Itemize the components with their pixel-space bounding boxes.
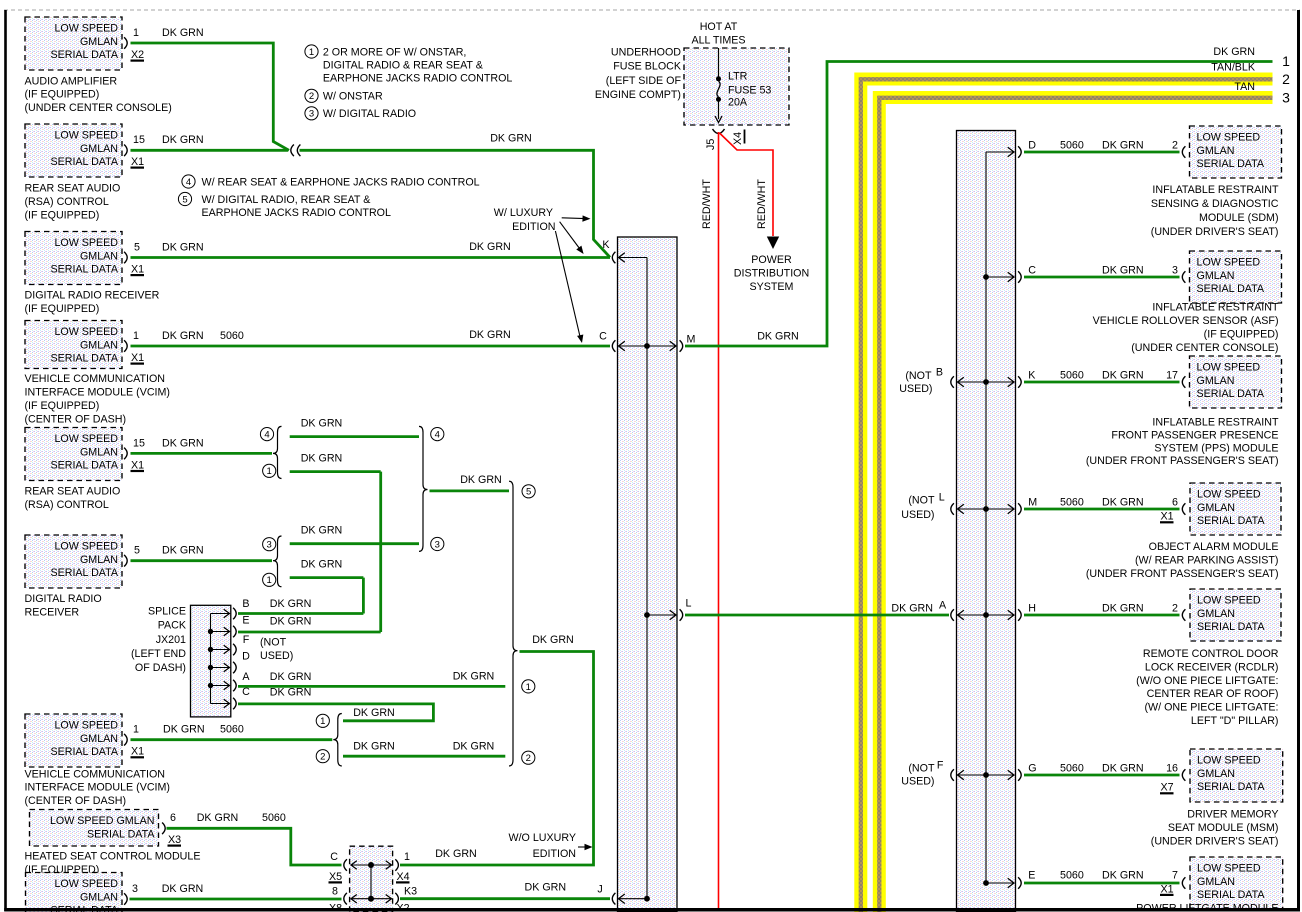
svg-text:(W/ ONE PIECE LIFTGATE:: (W/ ONE PIECE LIFTGATE:: [1145, 702, 1279, 714]
svg-text:SERIAL DATA: SERIAL DATA: [1197, 158, 1265, 170]
svg-text:W/O LUXURY: W/O LUXURY: [508, 832, 576, 844]
svg-text:5060: 5060: [1060, 139, 1084, 151]
svg-text:5060: 5060: [1060, 869, 1084, 881]
svg-text:SPLICE: SPLICE: [148, 605, 186, 617]
wire DK GRN branch note4: [290, 435, 419, 438]
svg-text:5: 5: [526, 487, 531, 498]
splice bus bar (right) body: [957, 131, 1016, 912]
wire DK GRN terminal K to PPS module: [1024, 381, 1180, 384]
svg-text:DK GRN: DK GRN: [1102, 369, 1144, 381]
svg-text:W/ DIGITAL RADIO: W/ DIGITAL RADIO: [323, 108, 416, 120]
svg-text:LOW SPEED: LOW SPEED: [1197, 489, 1261, 501]
svg-text:EARPHONE JACKS RADIO CONTROL: EARPHONE JACKS RADIO CONTROL: [202, 207, 391, 219]
svg-text:1: 1: [526, 682, 531, 693]
svg-text:B: B: [242, 598, 249, 610]
connector row 2: 8/X8 to K3/X2: [344, 893, 347, 905]
svg-text:SERIAL DATA: SERIAL DATA: [87, 828, 155, 840]
svg-text:DK GRN: DK GRN: [162, 437, 204, 449]
svg-text:SERIAL DATA: SERIAL DATA: [1197, 283, 1265, 295]
svg-text:X3: X3: [168, 834, 181, 846]
svg-text:GMLAN: GMLAN: [80, 143, 118, 155]
svg-text:4: 4: [264, 430, 269, 441]
svg-text:(NOT: (NOT: [908, 495, 935, 507]
svg-text:DK GRN: DK GRN: [301, 417, 343, 429]
svg-text:X4: X4: [397, 871, 410, 883]
svg-text:1: 1: [267, 466, 272, 477]
module box: RCDLR LOW SPEED GMLAN SERIAL DATA: [1190, 589, 1281, 641]
svg-text:FUSE 53: FUSE 53: [728, 85, 771, 97]
svg-text:SERIAL DATA: SERIAL DATA: [1197, 621, 1265, 633]
terminal A / H row of bus bar 2: [951, 609, 954, 621]
svg-text:INTERFACE MODULE (VCIM): INTERFACE MODULE (VCIM): [25, 782, 170, 794]
svg-text:H: H: [1028, 602, 1036, 614]
svg-text:GMLAN: GMLAN: [80, 250, 118, 262]
svg-text:LOW SPEED: LOW SPEED: [54, 237, 118, 249]
svg-text:(RSA) CONTROL: (RSA) CONTROL: [25, 499, 109, 511]
terminal L of bus bar 1: [680, 609, 683, 621]
inline connector box (X5/X4 - X8/X2): [350, 846, 393, 912]
svg-text:INTERFACE MODULE (VCIM): INTERFACE MODULE (VCIM): [25, 387, 170, 399]
svg-text:1: 1: [267, 575, 272, 586]
wire 3 TAN thick from right edge down to bottom: [879, 98, 1272, 912]
svg-text:LOW SPEED: LOW SPEED: [54, 541, 118, 553]
svg-text:J5: J5: [705, 139, 717, 150]
svg-text:X7: X7: [1161, 782, 1174, 794]
svg-text:EDITION: EDITION: [533, 848, 576, 860]
wire DK GRN from L terminal to A terminal of right bus: [685, 614, 949, 617]
svg-text:USED): USED): [901, 776, 934, 788]
svg-text:DK GRN: DK GRN: [453, 740, 495, 752]
svg-text:OF DASH): OF DASH): [135, 662, 186, 674]
svg-text:RED/WHT: RED/WHT: [701, 179, 713, 229]
svg-text:DK GRN: DK GRN: [469, 241, 511, 253]
terminal L (not used) / M row of bus bar 2: [951, 503, 954, 515]
wire DK GRN branch note3: [290, 542, 419, 545]
svg-text:1: 1: [133, 724, 139, 736]
svg-text:X5: X5: [329, 871, 342, 883]
svg-text:W/ LUXURY: W/ LUXURY: [494, 207, 553, 219]
svg-text:5: 5: [134, 545, 140, 557]
svg-text:3: 3: [309, 109, 314, 120]
wire RED/WHT vertical (J5): [718, 132, 720, 908]
svg-text:DK GRN: DK GRN: [1102, 264, 1144, 276]
connector row 1: C/X5 to 1/X4: [344, 859, 347, 871]
svg-text:5: 5: [182, 194, 187, 205]
splice pack wire E DK GRN: [238, 631, 381, 634]
svg-text:LOW SPEED: LOW SPEED: [54, 130, 118, 142]
svg-text:LTR: LTR: [728, 70, 748, 82]
module box: rollover sensor ASF LOW SPEED GMLAN SERIAL DATA: [1190, 251, 1282, 303]
svg-text:(IF EQUIPPED): (IF EQUIPPED): [25, 303, 100, 315]
svg-text:GMLAN: GMLAN: [1197, 145, 1235, 157]
svg-text:DK GRN: DK GRN: [270, 598, 312, 610]
svg-text:DK GRN: DK GRN: [460, 474, 502, 486]
svg-text:SENSING & DIAGNOSTIC: SENSING & DIAGNOSTIC: [1151, 198, 1279, 210]
right splice bus inner conductor: [985, 152, 987, 883]
svg-text:EARPHONE JACKS RADIO CONTROL: EARPHONE JACKS RADIO CONTROL: [323, 73, 512, 85]
module box: MSM LOW SPEED GMLAN SERIAL DATA: [1190, 749, 1283, 802]
terminal C row of bus bar 2: [986, 276, 1014, 278]
svg-text:(RSA) CONTROL: (RSA) CONTROL: [25, 196, 109, 208]
svg-text:SERIAL DATA: SERIAL DATA: [50, 156, 118, 168]
wire DK GRN terminal H to RCDLR: [1024, 614, 1180, 617]
svg-text:2: 2: [1282, 71, 1290, 87]
svg-text:DISTRIBUTION: DISTRIBUTION: [734, 267, 809, 279]
svg-text:LOW SPEED: LOW SPEED: [54, 326, 118, 338]
svg-text:DK GRN: DK GRN: [162, 27, 204, 39]
note 2: W/ ONSTAR: [305, 89, 318, 102]
module box: PPS LOW SPEED GMLAN SERIAL DATA: [1190, 356, 1282, 408]
svg-text:SERIAL DATA: SERIAL DATA: [50, 264, 118, 276]
svg-text:LOW SPEED GMLAN: LOW SPEED GMLAN: [50, 815, 155, 827]
svg-text:1: 1: [309, 47, 314, 58]
svg-text:(IF EQUIPPED): (IF EQUIPPED): [25, 400, 100, 412]
svg-text:DK GRN: DK GRN: [270, 671, 312, 683]
svg-text:(UNDER FRONT PASSENGER'S SEAT): (UNDER FRONT PASSENGER'S SEAT): [1086, 568, 1279, 580]
wire DK GRN note 5: [430, 489, 510, 492]
terminal B (not used) / K row of bus bar 2: [951, 376, 954, 388]
wire DK GRN from splice to K terminal of splice bus: [300, 150, 611, 257]
svg-text:6: 6: [1172, 496, 1178, 508]
wire DK GRN branch note1 upper: [290, 472, 381, 632]
svg-text:J: J: [597, 883, 602, 895]
svg-text:DK GRN: DK GRN: [1102, 762, 1144, 774]
svg-text:USED): USED): [899, 383, 932, 395]
page frame: [4, 9, 1300, 11]
svg-text:DRIVER MEMORY: DRIVER MEMORY: [1187, 809, 1278, 821]
svg-text:E: E: [1028, 869, 1035, 881]
svg-text:SERIAL DATA: SERIAL DATA: [50, 567, 118, 579]
svg-text:1: 1: [133, 27, 139, 39]
svg-text:HEATED SEAT CONTROL MODULE: HEATED SEAT CONTROL MODULE: [25, 851, 201, 863]
svg-text:SERIAL DATA: SERIAL DATA: [1197, 781, 1265, 793]
svg-text:X1: X1: [131, 264, 144, 276]
svg-text:G: G: [1028, 762, 1036, 774]
note 5: W/ DIGITAL RADIO, REAR SEAT & EARPHONE JACKS RADIO CONTROL: [178, 192, 191, 205]
svg-text:(LEFT SIDE OF: (LEFT SIDE OF: [606, 75, 682, 87]
svg-text:2: 2: [320, 752, 325, 763]
svg-text:SERIAL DATA: SERIAL DATA: [50, 460, 118, 472]
splice pack pin arcs and letters B E F D A C: [233, 608, 236, 620]
module box: DIGITAL RADIO RECEIVER (IF EQUIPPED) connector X1 pin 5: [25, 232, 122, 285]
module box: object alarm LOW SPEED GMLAN SERIAL DATA: [1190, 483, 1281, 535]
wire 2 TAN/BLK thick from right edge down to bottom: [861, 79, 1273, 912]
wire RED/WHT to power distribution (X4): [720, 133, 774, 236]
module box: power liftgate LOW SPEED GMLAN SERIAL DATA: [1190, 857, 1283, 909]
module box: VEHICLE COMMUNICATION INTERFACE MODULE (VCIM) (IF EQUIPPED) connector X1 pin 1: [25, 321, 122, 369]
svg-text:20A: 20A: [728, 96, 748, 108]
svg-text:1: 1: [133, 330, 139, 342]
svg-text:AUDIO AMPLIFIER: AUDIO AMPLIFIER: [25, 75, 118, 87]
svg-text:GMLAN: GMLAN: [80, 339, 118, 351]
svg-text:MODULE (SDM): MODULE (SDM): [1199, 212, 1279, 224]
svg-text:X2: X2: [131, 49, 144, 61]
svg-text:GMLAN: GMLAN: [80, 446, 118, 458]
svg-text:DK GRN: DK GRN: [301, 558, 343, 570]
splice pack internal bus with pin arrows: [210, 614, 212, 704]
svg-text:X1: X1: [1161, 511, 1174, 523]
svg-text:DK GRN: DK GRN: [162, 134, 204, 146]
svg-text:(CENTER OF DASH): (CENTER OF DASH): [25, 795, 127, 807]
terminal K of bus bar 1: [612, 252, 615, 264]
svg-text:2: 2: [309, 91, 314, 102]
svg-text:A: A: [242, 671, 250, 683]
svg-text:LOW SPEED: LOW SPEED: [1197, 132, 1261, 144]
svg-text:C: C: [330, 851, 338, 863]
connector J5/X4 under fuse block: [713, 129, 725, 134]
svg-text:(NOT: (NOT: [905, 370, 932, 382]
svg-text:(UNDER CENTER CONSOLE): (UNDER CENTER CONSOLE): [25, 102, 172, 114]
svg-text:LOW SPEED: LOW SPEED: [1197, 362, 1261, 374]
svg-text:K: K: [602, 239, 610, 251]
svg-text:HOT AT: HOT AT: [700, 21, 738, 33]
wire DK GRN from heated seat module to inline connector C/X5: [167, 828, 342, 865]
svg-text:3: 3: [132, 883, 138, 895]
svg-text:5060: 5060: [1060, 762, 1084, 774]
svg-text:D: D: [242, 651, 250, 663]
svg-text:W/ ONSTAR: W/ ONSTAR: [323, 91, 383, 103]
svg-text:(W/O ONE PIECE LIFTGATE:: (W/O ONE PIECE LIFTGATE:: [1136, 675, 1278, 687]
svg-text:DK GRN: DK GRN: [435, 848, 477, 860]
terminal D row of bus bar 2: [986, 151, 1014, 153]
svg-text:(CENTER OF DASH): (CENTER OF DASH): [25, 413, 127, 425]
module box: VEHICLE COMMUNICATION INTERFACE MODULE (VCIM) connector X1 pin 1: [25, 714, 122, 767]
svg-text:LOW SPEED: LOW SPEED: [54, 878, 118, 890]
module box: SDM LOW SPEED GMLAN SERIAL DATA: [1190, 126, 1282, 178]
svg-text:INFLATABLE RESTRAINT: INFLATABLE RESTRAINT: [1152, 184, 1279, 196]
svg-text:15: 15: [133, 437, 145, 449]
svg-text:USED): USED): [901, 509, 934, 521]
svg-text:5: 5: [134, 242, 140, 254]
svg-text:M: M: [687, 334, 696, 346]
svg-text:SERIAL DATA: SERIAL DATA: [50, 353, 118, 365]
svg-text:E: E: [242, 614, 249, 626]
svg-text:CENTER REAR OF ROOF): CENTER REAR OF ROOF): [1147, 688, 1279, 700]
svg-text:5060: 5060: [220, 724, 244, 736]
connector internal link: [370, 865, 372, 899]
svg-text:LOW SPEED: LOW SPEED: [54, 433, 118, 445]
svg-text:RED/WHT: RED/WHT: [756, 179, 768, 229]
svg-text:VEHICLE COMMUNICATION: VEHICLE COMMUNICATION: [25, 373, 166, 385]
splice pack JX201 body: [191, 605, 231, 717]
svg-text:SERIAL DATA: SERIAL DATA: [50, 49, 118, 61]
svg-text:DK GRN: DK GRN: [891, 602, 933, 614]
wire DK GRN terminal M to object alarm module: [1024, 508, 1180, 511]
svg-text:3: 3: [1172, 264, 1178, 276]
module box: DIGITAL RADIO RECEIVER connector pin 5: [25, 535, 122, 588]
svg-text:L: L: [686, 598, 692, 610]
svg-text:GMLAN: GMLAN: [1197, 375, 1235, 387]
wire DK GRN terminal E to power liftgate module: [1024, 882, 1180, 885]
brace group for RSA control wire (notes 4 and 1): [273, 426, 282, 478]
svg-text:SERIAL DATA: SERIAL DATA: [1197, 889, 1265, 901]
brace group for digital radio receiver wire (notes 3 and 1): [273, 536, 282, 587]
svg-text:DK GRN: DK GRN: [1102, 602, 1144, 614]
svg-text:DK GRN: DK GRN: [453, 671, 495, 683]
module box: HEATED SEAT CONTROL MODULE (IF EQUIPPED) connector X3 pin 6: [30, 810, 159, 847]
svg-text:K3: K3: [404, 885, 417, 897]
wire DK GRN from RSA control: [131, 149, 289, 152]
svg-text:ENGINE COMPT): ENGINE COMPT): [595, 89, 681, 101]
note 4: W/ REAR SEAT & EARPHONE JACKS RADIO CONTROL: [182, 175, 195, 188]
svg-text:DK GRN: DK GRN: [270, 686, 312, 698]
splice bus bar (left) body: [618, 237, 678, 912]
svg-text:B: B: [936, 367, 943, 379]
svg-text:EDITION: EDITION: [512, 221, 555, 233]
wire DK GRN VCIM branch note2: [343, 755, 505, 758]
svg-text:SYSTEM (PPS) MODULE: SYSTEM (PPS) MODULE: [1154, 442, 1278, 454]
svg-text:DK GRN: DK GRN: [162, 330, 204, 342]
svg-text:GMLAN: GMLAN: [80, 733, 118, 745]
svg-text:USED): USED): [260, 650, 293, 662]
inline harness connector (double arc): [291, 145, 294, 157]
module box: REAR SEAT AUDIO (RSA) CONTROL connector X1 pin 15: [25, 428, 122, 481]
svg-text:FRONT PASSENGER PRESENCE: FRONT PASSENGER PRESENCE: [1111, 429, 1278, 441]
svg-text:17: 17: [1166, 369, 1178, 381]
svg-text:DK GRN: DK GRN: [1102, 869, 1144, 881]
wire DK GRN from digital radio receiver to K: [131, 256, 611, 259]
wire DK GRN terminal C to rollover sensor: [1024, 276, 1180, 279]
svg-text:GMLAN: GMLAN: [80, 554, 118, 566]
svg-text:POWER: POWER: [751, 254, 792, 266]
svg-text:W/ DIGITAL RADIO, REAR SEAT &: W/ DIGITAL RADIO, REAR SEAT &: [202, 194, 371, 206]
svg-text:DK GRN: DK GRN: [353, 707, 395, 719]
wire DK GRN branch note1 lower: [290, 578, 364, 614]
svg-text:F: F: [937, 760, 944, 772]
wire DK GRN from VCIM to C terminal: [131, 345, 611, 348]
wire DK GRN from audio amplifier to inline splice: [131, 43, 290, 150]
svg-text:DK GRN: DK GRN: [353, 740, 395, 752]
svg-text:LOCK RECEIVER (RCDLR): LOCK RECEIVER (RCDLR): [1145, 661, 1279, 673]
svg-text:X1: X1: [1161, 883, 1174, 895]
svg-text:GMLAN: GMLAN: [1197, 768, 1235, 780]
svg-text:X1: X1: [131, 746, 144, 758]
svg-text:UNDERHOOD: UNDERHOOD: [611, 47, 681, 59]
svg-text:TAN/BLK: TAN/BLK: [1211, 61, 1256, 73]
svg-text:5060: 5060: [262, 812, 286, 824]
svg-text:LOW SPEED: LOW SPEED: [1197, 257, 1261, 269]
svg-text:7: 7: [1172, 869, 1178, 881]
svg-text:DK GRN: DK GRN: [469, 329, 511, 341]
svg-text:2 OR MORE OF W/ ONSTAR,: 2 OR MORE OF W/ ONSTAR,: [323, 46, 467, 58]
module box: bottom-left module (cut off) connector pin 3: [26, 873, 123, 912]
splice pack wire C DK GRN u-turn to VCIM branch 1: [238, 704, 433, 721]
svg-text:5060: 5060: [1060, 369, 1084, 381]
svg-text:(NOT: (NOT: [908, 763, 935, 775]
svg-text:1: 1: [1282, 53, 1290, 69]
terminal C / M row of bus bar 1: [612, 340, 615, 352]
terminal F (not used) / G row of bus bar 2: [951, 769, 954, 781]
svg-text:DK GRN: DK GRN: [270, 616, 312, 628]
svg-text:GMLAN: GMLAN: [1197, 876, 1235, 888]
svg-text:DIGITAL RADIO RECEIVER: DIGITAL RADIO RECEIVER: [25, 290, 160, 302]
svg-text:(UNDER FRONT PASSENGER'S SEAT): (UNDER FRONT PASSENGER'S SEAT): [1086, 455, 1279, 467]
svg-text:2: 2: [1172, 602, 1178, 614]
svg-text:DK GRN: DK GRN: [757, 330, 799, 342]
svg-text:1: 1: [320, 716, 325, 727]
svg-text:(W/ REAR PARKING ASSIST): (W/ REAR PARKING ASSIST): [1135, 555, 1279, 567]
svg-text:(UNDER DRIVER'S SEAT): (UNDER DRIVER'S SEAT): [1151, 835, 1279, 847]
svg-text:SYSTEM: SYSTEM: [750, 281, 794, 293]
svg-text:DK GRN: DK GRN: [1102, 496, 1144, 508]
splice pack wire B DK GRN: [238, 612, 363, 615]
closing brace joining notes 4 and 3 to note 5 wire: [419, 426, 428, 551]
svg-text:FUSE BLOCK: FUSE BLOCK: [613, 61, 682, 73]
svg-text:C: C: [599, 331, 607, 343]
svg-text:2: 2: [1172, 139, 1178, 151]
svg-text:16: 16: [1166, 762, 1178, 774]
svg-text:DIGITAL RADIO: DIGITAL RADIO: [25, 593, 102, 605]
svg-text:X1: X1: [131, 156, 144, 168]
svg-text:SERIAL DATA: SERIAL DATA: [1197, 388, 1265, 400]
svg-text:3: 3: [1282, 90, 1290, 106]
svg-text:2: 2: [526, 753, 531, 764]
splice bus inner conductor: [646, 258, 648, 899]
svg-text:(LEFT END: (LEFT END: [131, 648, 186, 660]
svg-text:5060: 5060: [1060, 496, 1084, 508]
svg-text:3: 3: [267, 540, 272, 551]
svg-text:DK GRN: DK GRN: [532, 634, 574, 646]
wire DK GRN terminal D to SDM: [1024, 151, 1180, 154]
svg-text:VEHICLE ROLLOVER SENSOR (ASF): VEHICLE ROLLOVER SENSOR (ASF): [1093, 315, 1279, 327]
svg-text:X1: X1: [131, 352, 144, 364]
svg-text:DK GRN: DK GRN: [525, 882, 567, 894]
splice pack wire A DK GRN to brace: [238, 685, 505, 688]
svg-text:(IF EQUIPPED): (IF EQUIPPED): [25, 209, 100, 221]
svg-text:3: 3: [435, 539, 440, 550]
svg-text:LOW SPEED: LOW SPEED: [1197, 863, 1261, 875]
svg-text:REAR SEAT AUDIO: REAR SEAT AUDIO: [25, 486, 121, 498]
svg-text:GMLAN: GMLAN: [1197, 502, 1235, 514]
tall closing brace joining 5 1 2 wires: [509, 481, 518, 766]
svg-text:SERIAL DATA: SERIAL DATA: [1197, 515, 1265, 527]
svg-text:LOW SPEED: LOW SPEED: [54, 720, 118, 732]
svg-text:DK GRN: DK GRN: [162, 883, 204, 895]
svg-text:DK GRN: DK GRN: [197, 812, 239, 824]
svg-text:DK GRN: DK GRN: [301, 524, 343, 536]
module box: AUDIO AMPLIFIER - LOW SPEED GMLAN SERIAL DATA connector X2 pin 1: [25, 17, 122, 70]
svg-text:GMLAN: GMLAN: [1197, 270, 1235, 282]
svg-text:C: C: [1028, 264, 1036, 276]
module box: REAR SEAT AUDIO (RSA) CONTROL (IF EQUIPPED) connector X1 pin 15: [25, 124, 122, 177]
note 3: W/ DIGITAL RADIO: [305, 107, 318, 120]
svg-text:W/ REAR SEAT & EARPHONE JACKS: W/ REAR SEAT & EARPHONE JACKS RADIO CONT…: [202, 176, 480, 188]
brace group for VCIM wire (notes 1 and 2): [333, 714, 342, 767]
svg-text:JX201: JX201: [156, 634, 186, 646]
svg-text:RECEIVER: RECEIVER: [25, 606, 80, 618]
svg-text:LOW SPEED: LOW SPEED: [1197, 755, 1261, 767]
terminal J of bus bar 1: [612, 893, 615, 905]
svg-text:(UNDER DRIVER'S SEAT): (UNDER DRIVER'S SEAT): [1151, 226, 1279, 238]
svg-text:A: A: [939, 600, 947, 612]
svg-text:1: 1: [404, 851, 410, 863]
svg-text:4: 4: [435, 430, 440, 441]
svg-text:15: 15: [133, 134, 145, 146]
svg-text:DK GRN: DK GRN: [163, 724, 205, 736]
svg-text:TAN: TAN: [1234, 81, 1255, 93]
svg-text:LOW SPEED: LOW SPEED: [1197, 595, 1261, 607]
svg-text:6: 6: [170, 812, 176, 824]
svg-text:LOW SPEED: LOW SPEED: [54, 23, 118, 35]
svg-text:DK GRN: DK GRN: [490, 133, 532, 145]
terminal E row of bus bar 2: [986, 882, 1014, 884]
svg-text:SEAT MODULE (MSM): SEAT MODULE (MSM): [1168, 822, 1279, 834]
svg-text:8: 8: [332, 885, 338, 897]
svg-text:OBJECT ALARM MODULE: OBJECT ALARM MODULE: [1149, 541, 1279, 553]
svg-text:F: F: [243, 634, 250, 646]
wire DK GRN from bottom-left module to connector 8/X8: [130, 898, 342, 901]
svg-text:X1: X1: [131, 459, 144, 471]
